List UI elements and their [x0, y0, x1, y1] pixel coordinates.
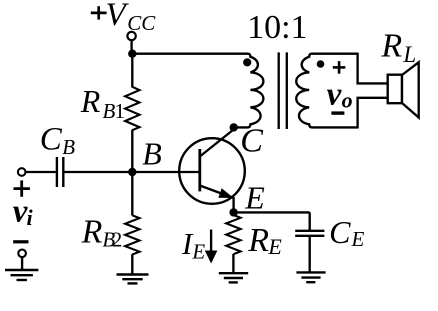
- svg-text:E: E: [191, 240, 205, 264]
- svg-text:C: C: [329, 214, 351, 250]
- svg-text:o: o: [342, 88, 353, 113]
- svg-text:10:1: 10:1: [247, 9, 307, 46]
- svg-text:B: B: [142, 136, 162, 172]
- svg-text:R: R: [247, 222, 269, 259]
- svg-text:R: R: [81, 214, 103, 251]
- svg-text:V: V: [106, 0, 130, 33]
- svg-text:C: C: [40, 121, 63, 157]
- svg-text:i: i: [27, 205, 34, 230]
- svg-text:E: E: [244, 179, 265, 215]
- svg-text:2: 2: [112, 227, 123, 251]
- svg-text:B: B: [62, 135, 75, 159]
- svg-text:R: R: [80, 83, 101, 119]
- svg-text:1: 1: [115, 99, 126, 123]
- svg-text:L: L: [402, 42, 416, 67]
- svg-text:R: R: [380, 27, 402, 64]
- svg-text:CC: CC: [127, 11, 156, 35]
- svg-text:C: C: [240, 123, 263, 160]
- svg-text:E: E: [351, 227, 365, 251]
- svg-text:v: v: [13, 194, 28, 230]
- svg-text:v: v: [327, 77, 342, 113]
- svg-text:E: E: [267, 234, 282, 259]
